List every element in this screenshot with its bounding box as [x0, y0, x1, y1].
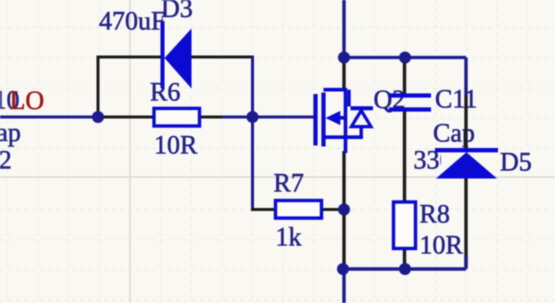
- wire vertical drain rail x=344: [342, 0, 345, 303]
- svg-text:C11: C11: [435, 85, 477, 114]
- node junction top at C11 branch: [399, 52, 411, 64]
- node junction at R6/D3 right / R7: [247, 111, 259, 123]
- svg-text:D5: D5: [500, 148, 532, 177]
- svg-text:LO: LO: [10, 86, 45, 115]
- wire bottom rail: [342, 267, 466, 270]
- gate wire handled by main wire; gate bar: [313, 94, 317, 146]
- svg-text:R8: R8: [420, 200, 450, 229]
- resistor R7: [276, 201, 322, 219]
- svg-text:R6: R6: [150, 78, 180, 107]
- diode D3 (on bypass wire, pointing left): [163, 21, 192, 89]
- resistor R8: [394, 202, 416, 249]
- node junction bottom R8: [399, 263, 411, 275]
- wire bottom rail right corner up: [464, 255, 467, 269]
- node junction at R6/D3 left: [92, 111, 104, 123]
- diode D5 (pointing up): [435, 150, 498, 178]
- node junction R7 to drain rail: [338, 204, 350, 216]
- svg-text:10R: 10R: [420, 231, 464, 260]
- wire top bypass branch: [97, 56, 255, 118]
- wire R7 branch: [251, 117, 344, 210]
- node junction bottom left: [337, 263, 349, 275]
- wire D5 branch vertical: [464, 58, 467, 268]
- svg-text:10R: 10R: [154, 131, 198, 160]
- node junction top left: [338, 52, 350, 64]
- resistor R6: [154, 108, 200, 126]
- svg-text:R7: R7: [274, 169, 304, 198]
- svg-text:470uF: 470uF: [99, 7, 165, 36]
- value 330uF (mostly hidden behind D5): [414, 146, 480, 175]
- transistor Q2 (N-MOSFET): [316, 88, 374, 153]
- svg-text:Cap: Cap: [433, 119, 475, 148]
- wire C11 branch vertical: [403, 62, 406, 267]
- capacitor C11: [389, 96, 431, 110]
- svg-text:D3: D3: [161, 0, 193, 23]
- wire top horizontal to C11/D5: [344, 56, 466, 59]
- svg-text:1k: 1k: [276, 223, 302, 252]
- wire main horizontal LO net: [0, 116, 314, 119]
- svg-text:Cap: Cap: [0, 118, 21, 147]
- svg-text:D2: D2: [0, 146, 12, 175]
